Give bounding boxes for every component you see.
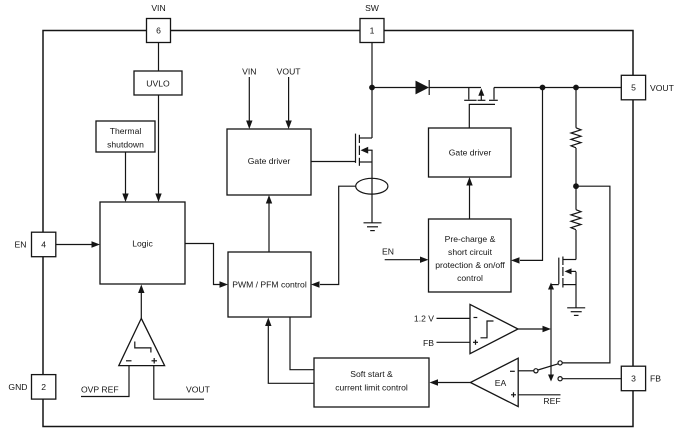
pin 2 (GND) bbox=[32, 375, 56, 400]
svg-text:1: 1 bbox=[370, 26, 375, 36]
wire Pre-charge to Gate driver (right) bbox=[469, 185, 471, 220]
svg-text:short circuit: short circuit bbox=[448, 247, 493, 257]
svg-text:3: 3 bbox=[631, 374, 636, 384]
wire EA output to Soft start bbox=[438, 382, 470, 384]
svg-text:OVP REF: OVP REF bbox=[81, 385, 119, 395]
wire current sense to PWM/PFM control bbox=[320, 186, 356, 284]
wire pin4 to Logic bbox=[56, 244, 92, 246]
svg-text:2: 2 bbox=[41, 382, 46, 392]
wire Logic to PWM/PFM control bbox=[185, 244, 220, 285]
svg-text:VOUT: VOUT bbox=[277, 67, 302, 77]
switch contact upper bbox=[558, 361, 562, 365]
wire Gate driver to Q1 gate bbox=[311, 161, 356, 163]
wire comparator U2 output vertical (gate drive / switch drive) bbox=[550, 289, 552, 376]
svg-text:GND: GND bbox=[8, 382, 27, 392]
pin 6 (VIN) bbox=[147, 19, 171, 43]
svg-text:EN: EN bbox=[382, 246, 394, 256]
comparator U2 (1.2 V) bbox=[470, 304, 518, 353]
wire FBmid to switch contact bbox=[562, 186, 610, 363]
ground (below Q3) bbox=[567, 308, 585, 316]
wire EA inverting input to switch pole bbox=[518, 370, 534, 372]
wire R1 to node FBmid bbox=[575, 148, 577, 210]
wire UVLO to Logic bbox=[158, 95, 160, 194]
wire pin6 to UVLO bbox=[158, 43, 160, 72]
wire U2 output bbox=[518, 328, 543, 330]
wire pin1/SW down to Q1 drain bbox=[371, 43, 373, 139]
wire EN to Pre-charge bbox=[385, 259, 421, 261]
node VOUT rail junction B bbox=[573, 85, 579, 91]
svg-text:control: control bbox=[457, 273, 483, 283]
comparator U3 (OVP) bbox=[119, 318, 165, 365]
svg-text:Gate driver: Gate driver bbox=[449, 148, 492, 158]
wire Soft start to PWM/PFM bbox=[268, 325, 314, 383]
node FBmid bbox=[573, 183, 579, 189]
svg-text:PWM / PFM control: PWM / PFM control bbox=[232, 280, 307, 290]
wire Q3 gate bbox=[551, 284, 559, 286]
svg-text:UVLO: UVLO bbox=[146, 78, 170, 88]
svg-text:VOUT: VOUT bbox=[186, 385, 211, 395]
wire OVP REF input bbox=[81, 366, 129, 397]
svg-text:5: 5 bbox=[631, 83, 636, 93]
svg-text:Thermal: Thermal bbox=[110, 126, 142, 136]
svg-text:EN: EN bbox=[15, 240, 27, 250]
wire diode to Q2 bbox=[429, 87, 481, 89]
svg-text:6: 6 bbox=[156, 26, 161, 36]
wire PWM/PFM to Gate driver (left) bbox=[268, 203, 270, 253]
wire VIN arrow into Gate driver bbox=[248, 77, 250, 122]
node VOUT rail junction A bbox=[540, 85, 546, 91]
wire VOUT rail to Pre-charge block bbox=[520, 88, 543, 261]
wire comparator U3 to Logic bbox=[140, 292, 142, 318]
svg-text:FB: FB bbox=[423, 338, 434, 348]
wire 1.2V to U2 bbox=[437, 317, 471, 319]
svg-text:protection & on/off: protection & on/off bbox=[435, 260, 505, 270]
switch contact lower bbox=[558, 377, 562, 381]
svg-text:1.2 V: 1.2 V bbox=[414, 314, 434, 324]
block UVLO bbox=[134, 71, 182, 95]
pin 3 (FB) bbox=[621, 366, 645, 391]
block Soft start & current limit control bbox=[314, 358, 429, 407]
svg-text:Soft start &: Soft start & bbox=[350, 369, 393, 379]
wire switch lower contact to pin3 bbox=[562, 378, 621, 380]
wire VOUT arrow into Gate driver bbox=[288, 77, 290, 122]
block PWM / PFM control bbox=[228, 252, 311, 317]
block Thermal shutdown bbox=[96, 121, 155, 152]
node SW junction bbox=[369, 85, 375, 91]
pin 4 (EN) bbox=[32, 232, 56, 257]
svg-text:SW: SW bbox=[365, 3, 380, 13]
wire SW node to diode bbox=[372, 87, 416, 89]
block Pre-charge & short circuit protection & on/off control bbox=[429, 219, 512, 292]
IC outline bbox=[43, 31, 633, 427]
wire R2 to Q3 drain bbox=[575, 230, 577, 260]
wire Q2 drain to pin5 (VOUT rail) bbox=[494, 87, 621, 89]
svg-text:EA: EA bbox=[495, 378, 507, 388]
svg-text:VIN: VIN bbox=[242, 67, 256, 77]
transistor Q1 (low-side NMOS) bbox=[356, 134, 373, 166]
svg-text:VOUT: VOUT bbox=[650, 83, 675, 93]
ground (below current sense) bbox=[364, 223, 382, 231]
svg-text:REF: REF bbox=[543, 396, 560, 406]
current sense oval bbox=[356, 178, 388, 194]
wire VOUT rail down to R1 bbox=[575, 88, 577, 128]
svg-text:Gate driver: Gate driver bbox=[248, 156, 291, 166]
pin 5 (VOUT) bbox=[621, 75, 645, 100]
resistor R1 bbox=[571, 128, 581, 148]
transistor Q3 (FB discharge NMOS) bbox=[559, 257, 576, 288]
block Logic bbox=[100, 202, 185, 284]
svg-text:current limit control: current limit control bbox=[335, 382, 408, 392]
svg-text:VIN: VIN bbox=[151, 3, 165, 13]
wire VOUT input to comparator U3 bbox=[154, 366, 204, 400]
svg-text:shutdown: shutdown bbox=[107, 139, 144, 149]
op-amp EA bbox=[470, 358, 518, 406]
transistor Q2 (PMOS pass switch) bbox=[464, 88, 498, 129]
wire PWM/PFM to Soft start bbox=[290, 317, 314, 370]
svg-text:Pre-charge &: Pre-charge & bbox=[445, 234, 496, 244]
switch pole contact bbox=[534, 369, 538, 373]
svg-text:FB: FB bbox=[650, 374, 661, 384]
svg-text:4: 4 bbox=[41, 240, 46, 250]
diode D1 bbox=[416, 80, 430, 95]
wire EA non-inverting input (REF) bbox=[518, 394, 560, 396]
pin 1 (SW) bbox=[360, 19, 384, 43]
svg-text:Logic: Logic bbox=[132, 238, 153, 248]
block Gate driver (left) bbox=[227, 129, 311, 195]
switch arm bbox=[538, 364, 558, 370]
block Gate driver (right) bbox=[429, 128, 512, 177]
wire FB to U2 bbox=[437, 341, 471, 343]
resistor R2 bbox=[571, 210, 581, 230]
wire Thermal shutdown to Logic bbox=[125, 152, 127, 194]
